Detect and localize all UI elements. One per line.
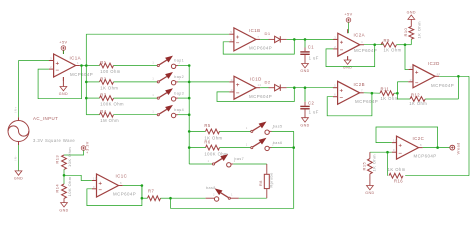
svg-text:13: 13 [231,88,235,92]
svg-text:7: 7 [361,88,363,92]
svg-text:MCP604P: MCP604P [113,191,136,196]
svg-text:MCP604P: MCP604P [355,99,378,104]
svg-text:R10: R10 [403,27,408,36]
svg-text:5: 5 [334,84,336,88]
svg-text:1: 1 [361,40,363,44]
svg-text:MCP604P: MCP604P [249,46,272,51]
svg-text:1: 1 [152,94,154,97]
svg-text:R7: R7 [148,188,154,193]
svg-text:100 Ohm: 100 Ohm [100,69,120,74]
svg-text:GND: GND [407,10,416,14]
svg-text:MCP604P: MCP604P [354,48,377,53]
svg-text:R8: R8 [259,180,263,186]
svg-text:IC2D: IC2D [428,61,440,66]
svg-text:13: 13 [410,78,414,82]
svg-text:GND: GND [300,123,309,127]
svg-text:1K Ohm: 1K Ohm [100,85,118,90]
svg-text:1: 1 [208,160,210,163]
svg-text:+5V: +5V [344,12,352,16]
svg-text:bas3: bas3 [174,91,184,95]
svg-text:14: 14 [258,83,262,87]
svg-text:6: 6 [230,38,232,42]
svg-text:1: 1 [246,143,248,146]
svg-text:R3: R3 [100,93,106,98]
svg-text:1 uF: 1 uF [309,110,319,115]
svg-text:bas5: bas5 [273,125,283,129]
svg-text:2: 2 [213,194,215,197]
svg-text:C2: C2 [308,101,314,106]
svg-text:12: 12 [231,78,235,82]
svg-text:IC2C: IC2C [413,136,425,141]
svg-text:AC_INPUT: AC_INPUT [33,116,58,121]
svg-text:10K Ohm: 10K Ohm [67,147,72,167]
svg-text:100K Ohm: 100K Ohm [100,102,124,107]
svg-text:IN+: IN+ [13,106,17,112]
svg-text:R4: R4 [100,109,106,114]
svg-text:10K Ohm: 10K Ohm [67,176,72,196]
svg-text:6: 6 [334,93,336,97]
svg-text:3: 3 [50,57,52,61]
svg-text:IC1A: IC1A [70,55,82,60]
svg-text:1: 1 [77,61,79,65]
svg-text:R9: R9 [384,38,390,43]
svg-text:3.3V Square Wave: 3.3V Square Wave [33,138,75,143]
svg-text:1K Ohm: 1K Ohm [409,101,427,106]
svg-text:bas6: bas6 [273,141,283,145]
svg-text:Vread: Vread [457,142,461,154]
svg-text:+3.3V: +3.3V [85,141,89,153]
svg-text:8: 8 [120,181,122,185]
svg-text:14: 14 [437,72,441,76]
svg-text:1M Ohm: 1M Ohm [100,118,119,123]
svg-text:12: 12 [410,66,414,70]
svg-text:1K Ohm: 1K Ohm [381,96,399,101]
svg-text:IC1C: IC1C [116,173,128,178]
svg-text:bas1: bas1 [174,59,184,63]
svg-text:1: 1 [246,127,248,130]
svg-text:9: 9 [93,185,95,189]
svg-text:R2: R2 [100,76,106,81]
svg-text:MCP604P: MCP604P [431,83,454,88]
svg-text:2: 2 [334,45,336,49]
svg-text:8: 8 [420,143,422,147]
svg-text:IC1B: IC1B [249,28,261,33]
svg-text:10: 10 [93,177,97,181]
svg-text:1: 1 [152,61,154,64]
svg-text:2: 2 [50,65,52,69]
svg-text:C1: C1 [308,44,314,49]
svg-text:9: 9 [393,148,395,152]
svg-text:1K Ohm: 1K Ohm [417,21,422,39]
svg-text:R6: R6 [204,139,210,144]
svg-text:R5: R5 [204,123,210,128]
svg-text:D2: D2 [265,80,271,85]
svg-text:1K Ohm: 1K Ohm [388,167,406,172]
svg-text:5: 5 [230,30,232,34]
svg-text:GND: GND [59,208,68,212]
svg-text:bas2: bas2 [174,75,184,79]
svg-text:R1: R1 [100,60,106,65]
svg-text:bas7: bas7 [234,157,244,161]
svg-text:3: 3 [334,35,336,39]
svg-text:IC2B: IC2B [354,82,366,87]
svg-text:MCP604P: MCP604P [249,94,272,99]
svg-text:R16: R16 [394,178,403,183]
svg-text:1 uF: 1 uF [309,55,319,60]
svg-text:1: 1 [152,78,154,81]
svg-text:1: 1 [152,111,154,114]
svg-text:Rprobe: Rprobe [270,172,274,187]
svg-text:D1: D1 [265,31,271,36]
svg-text:R11: R11 [381,87,390,92]
svg-text:1K Ohm: 1K Ohm [372,154,377,172]
svg-text:R13: R13 [55,155,60,164]
svg-text:1K Ohm: 1K Ohm [384,47,402,52]
svg-text:R14: R14 [55,184,60,193]
svg-text:R12: R12 [411,92,420,97]
svg-text:MCP604P: MCP604P [414,154,437,159]
svg-text:R15: R15 [362,161,367,170]
svg-text:+5V: +5V [59,40,67,44]
svg-text:7: 7 [257,35,259,39]
svg-text:1: 1 [231,194,233,197]
svg-text:IC2A: IC2A [354,33,366,38]
svg-text:GND: GND [300,69,309,73]
svg-text:bas8: bas8 [206,186,216,190]
svg-text:IN-: IN- [13,155,17,160]
svg-text:GND: GND [14,177,23,181]
svg-text:GND: GND [59,92,68,96]
svg-text:10: 10 [393,139,397,143]
svg-text:bas4: bas4 [174,108,184,112]
svg-text:IC1D: IC1D [250,77,262,82]
svg-text:GND: GND [365,191,374,195]
